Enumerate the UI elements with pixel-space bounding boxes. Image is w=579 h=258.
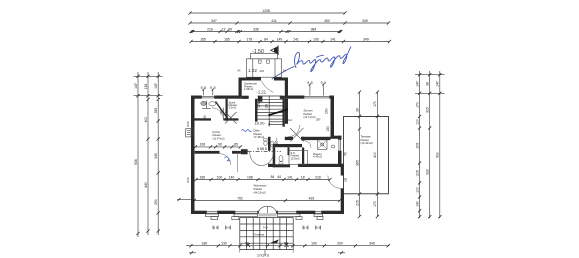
svg-text:147: 147 bbox=[134, 83, 138, 89]
svg-text:100: 100 bbox=[217, 175, 223, 179]
svg-text:165: 165 bbox=[200, 37, 206, 41]
svg-text:411: 411 bbox=[271, 19, 277, 23]
svg-text:287: 287 bbox=[316, 118, 321, 122]
svg-text:180: 180 bbox=[202, 242, 208, 246]
svg-text:450: 450 bbox=[324, 19, 330, 23]
svg-text:170: 170 bbox=[415, 102, 419, 108]
door swing arcs bbox=[212, 108, 224, 120]
svg-text:345: 345 bbox=[154, 153, 158, 159]
window axis markers above top walls bbox=[309, 85, 311, 96]
svg-text:±0.00: ±0.00 bbox=[255, 121, 266, 126]
washroom shower with cross and sink bbox=[318, 140, 328, 150]
right dimension chain middle bbox=[429, 71, 431, 218]
svg-text:100: 100 bbox=[311, 242, 317, 246]
svg-text:9: 9 bbox=[187, 180, 189, 184]
svg-text:44: 44 bbox=[277, 175, 281, 179]
svg-text:332: 332 bbox=[426, 169, 430, 175]
interior dimension line living room bbox=[196, 179, 330, 181]
right dimension chain outer (total 930) bbox=[439, 71, 441, 218]
svg-text:165: 165 bbox=[224, 37, 230, 41]
svg-text:4.43m2: 4.43m2 bbox=[313, 155, 322, 159]
left dimension chain outer (total 936) bbox=[137, 72, 139, 237]
interior dimension kitchen bbox=[195, 146, 240, 148]
left dimension chain middle bbox=[147, 72, 149, 235]
svg-text:90: 90 bbox=[245, 242, 249, 246]
svg-text:180: 180 bbox=[200, 175, 206, 179]
svg-text:169: 169 bbox=[200, 143, 206, 147]
svg-text:147: 147 bbox=[415, 81, 419, 87]
svg-text:8 8: 8 8 bbox=[262, 147, 267, 151]
svg-text:1208: 1208 bbox=[262, 9, 270, 13]
svg-text:365: 365 bbox=[355, 160, 359, 166]
bathroom fixtures bbox=[270, 142, 274, 148]
svg-text:17x17.6: 17x17.6 bbox=[257, 96, 261, 108]
svg-text:400: 400 bbox=[144, 117, 148, 123]
vertical dimension line x359 bbox=[359, 92, 361, 217]
interior dimension line 702/433 bbox=[194, 200, 339, 202]
svg-text:218: 218 bbox=[315, 175, 321, 179]
svg-text:90: 90 bbox=[275, 141, 279, 145]
WC room toilet bbox=[279, 156, 283, 162]
svg-text:336: 336 bbox=[253, 27, 259, 31]
bottom dimension chain bbox=[186, 245, 390, 247]
svg-text:140: 140 bbox=[229, 175, 235, 179]
pantry ladder cross bbox=[225, 112, 237, 124]
svg-text:9: 9 bbox=[201, 86, 203, 90]
svg-text:290: 290 bbox=[325, 108, 329, 114]
svg-text:-1.50: -1.50 bbox=[252, 49, 264, 55]
svg-text:147: 147 bbox=[436, 81, 440, 87]
svg-text:-1.21: -1.21 bbox=[257, 90, 267, 95]
svg-text:9: 9 bbox=[321, 81, 323, 85]
svg-text:178: 178 bbox=[247, 37, 253, 41]
svg-text:200: 200 bbox=[337, 242, 343, 246]
bottom secondary marks bbox=[189, 252, 196, 254]
svg-text:9: 9 bbox=[311, 81, 313, 85]
svg-text:85: 85 bbox=[234, 143, 238, 147]
svg-text:100: 100 bbox=[415, 119, 419, 125]
svg-text:90: 90 bbox=[203, 115, 207, 119]
svg-text:150: 150 bbox=[326, 126, 330, 132]
svg-text:84: 84 bbox=[271, 175, 275, 179]
entrance porch steps bbox=[247, 54, 282, 78]
svg-text:305: 305 bbox=[415, 143, 419, 149]
svg-text:3.0m2: 3.0m2 bbox=[229, 106, 237, 110]
svg-text:9: 9 bbox=[187, 124, 189, 128]
svg-text:936: 936 bbox=[134, 159, 138, 165]
staircase with treads, direction line and section cut bbox=[258, 96, 283, 127]
svg-text:9 9: 9 9 bbox=[316, 226, 321, 230]
svg-text:141: 141 bbox=[287, 175, 293, 179]
blue handwritten annotation Haupteingang with leader line bbox=[272, 47, 351, 79]
svg-text:384: 384 bbox=[311, 27, 317, 31]
svg-text:9: 9 bbox=[204, 86, 206, 90]
WC fixtures (sink and toilet) bbox=[201, 101, 207, 105]
svg-text:410: 410 bbox=[373, 152, 377, 158]
svg-text:90: 90 bbox=[284, 242, 288, 246]
svg-text:17.45m2: 17.45m2 bbox=[254, 135, 265, 139]
svg-text:216: 216 bbox=[207, 27, 213, 31]
dimension chain top row4 small segments bbox=[191, 41, 390, 43]
window sills outside walls bbox=[186, 129, 191, 137]
svg-text:205: 205 bbox=[415, 170, 419, 176]
svg-text:Parkett: Parkett bbox=[254, 187, 263, 191]
vertical dimension line x377 bbox=[376, 92, 378, 217]
closet box S.K. bbox=[289, 150, 308, 164]
left dimension chain inner bbox=[157, 72, 159, 235]
svg-text:99: 99 bbox=[228, 27, 232, 31]
svg-text:18: 18 bbox=[344, 178, 348, 182]
svg-text:9: 9 bbox=[307, 81, 309, 85]
svg-text:9 9: 9 9 bbox=[213, 226, 218, 230]
svg-text:141: 141 bbox=[330, 37, 336, 41]
svg-text:Wohnraum: Wohnraum bbox=[254, 184, 268, 188]
svg-text:930: 930 bbox=[436, 152, 440, 158]
svg-text:140: 140 bbox=[415, 201, 419, 207]
svg-text:9 9: 9 9 bbox=[226, 226, 231, 230]
dimension chain top row2 347/411/450/349 bbox=[190, 22, 389, 24]
blue scribble near Diele bbox=[242, 130, 252, 132]
svg-text:84: 84 bbox=[264, 37, 268, 41]
svg-text:100: 100 bbox=[313, 37, 319, 41]
svg-text:349: 349 bbox=[369, 242, 375, 246]
svg-text:9 9: 9 9 bbox=[303, 226, 308, 230]
svg-text:349: 349 bbox=[362, 19, 368, 23]
svg-text:(11.71m2): (11.71m2) bbox=[304, 115, 316, 119]
svg-text:702: 702 bbox=[237, 196, 243, 200]
svg-text:130: 130 bbox=[221, 242, 227, 246]
svg-text:Terrasse: Terrasse bbox=[254, 233, 265, 237]
left chains horizontal connectors bbox=[134, 75, 163, 77]
windows in exterior walls bbox=[201, 96, 203, 99]
dimension chain top row3 216/13/99/336/384 bbox=[192, 31, 340, 33]
svg-text:13: 13 bbox=[222, 27, 226, 31]
dimension chain top row1 total 1208 bbox=[190, 12, 345, 14]
svg-text:395: 395 bbox=[154, 108, 158, 114]
svg-text:9: 9 bbox=[210, 86, 212, 90]
svg-text:(11.47m2): (11.47m2) bbox=[213, 136, 225, 140]
svg-text:170: 170 bbox=[373, 201, 377, 207]
svg-text:100: 100 bbox=[415, 187, 419, 193]
svg-text:147: 147 bbox=[154, 83, 158, 89]
svg-text:9: 9 bbox=[324, 81, 326, 85]
svg-text:205: 205 bbox=[355, 200, 359, 206]
right dimension chain inner bbox=[419, 71, 421, 218]
terrace rectangle right bbox=[344, 117, 389, 194]
svg-text:18: 18 bbox=[301, 175, 305, 179]
svg-text:36: 36 bbox=[426, 82, 430, 86]
svg-text:198: 198 bbox=[247, 175, 253, 179]
svg-text:440: 440 bbox=[144, 182, 148, 188]
wall axis double ticks on row3 bbox=[190, 30, 193, 33]
svg-text:111: 111 bbox=[288, 118, 293, 122]
bottom terrace grid with steps bbox=[240, 218, 293, 250]
svg-text:17x17.6: 17x17.6 bbox=[257, 254, 269, 258]
exterior walls bbox=[191, 96, 195, 215]
dashed beam line bbox=[248, 150, 281, 152]
svg-text:10.6m2: 10.6m2 bbox=[291, 157, 300, 161]
svg-text:203: 203 bbox=[260, 69, 265, 73]
svg-text:28: 28 bbox=[264, 104, 268, 108]
blue scribble near kitchen door bbox=[225, 157, 231, 162]
svg-text:(44.15m2): (44.15m2) bbox=[254, 191, 266, 195]
left reference tick bbox=[177, 199, 191, 201]
svg-text:149: 149 bbox=[277, 37, 283, 41]
interior walls bbox=[195, 118, 212, 120]
svg-text:170: 170 bbox=[373, 101, 377, 107]
svg-text:1.65m2: 1.65m2 bbox=[244, 87, 253, 91]
svg-text:9: 9 bbox=[214, 86, 216, 90]
svg-text:347: 347 bbox=[211, 19, 217, 23]
right chains horizontal connectors bbox=[415, 74, 445, 76]
svg-text:(10.44m2): (10.44m2) bbox=[361, 141, 373, 145]
svg-text:90: 90 bbox=[218, 143, 222, 147]
svg-text:433: 433 bbox=[309, 196, 315, 200]
svg-text:141: 141 bbox=[293, 37, 299, 41]
svg-text:290: 290 bbox=[154, 199, 158, 205]
svg-text:72: 72 bbox=[344, 152, 348, 156]
svg-text:349: 349 bbox=[363, 37, 369, 41]
svg-text:136: 136 bbox=[144, 84, 148, 90]
svg-text:305: 305 bbox=[426, 107, 430, 113]
svg-text:1.22: 1.22 bbox=[248, 68, 257, 73]
svg-text:36: 36 bbox=[355, 108, 359, 112]
svg-text:9 St: 9 St bbox=[263, 226, 268, 230]
